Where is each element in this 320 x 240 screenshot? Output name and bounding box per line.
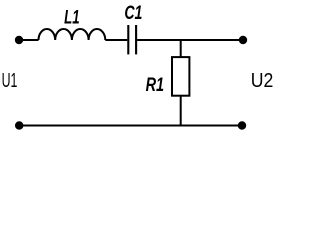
wire: input terminal to inductor [19,39,39,41]
svg-text:C1: C1 [124,2,142,24]
wire: inductor to capacitor [105,39,127,41]
capacitor C1 [128,25,136,54]
svg-text:R1: R1 [146,74,165,96]
svg-text:U1: U1 [2,70,18,92]
wire: capacitor to output node (through junction) [137,39,243,41]
node: bottom-right terminal [238,121,246,129]
node: top-right output terminal [239,36,247,44]
node: bottom-left terminal [15,121,23,129]
svg-text:L1: L1 [64,7,80,29]
resistor R1 [172,57,189,96]
inductor L1 [39,29,106,40]
svg-text:U2: U2 [251,70,274,92]
wire: bottom rail [19,125,242,127]
node: top-left input terminal [15,36,23,44]
junction: wire drop to resistor R1 [180,39,182,57]
wire: resistor to bottom rail [180,96,182,126]
